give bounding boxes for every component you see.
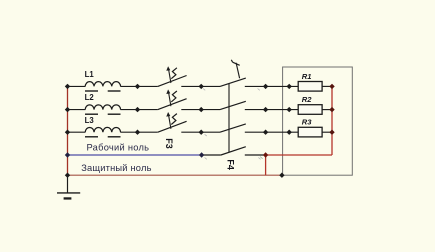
svg-text:F4: F4 [226, 159, 236, 170]
svg-text:R2: R2 [302, 95, 312, 104]
svg-text:R1: R1 [302, 72, 312, 81]
svg-text:L1: L1 [85, 70, 95, 79]
wire: left red vertical bus [67, 86, 69, 175]
wire: protective-neutral brick-red line [68, 174, 283, 176]
breaker F3 pole 1 [158, 66, 187, 86]
node R3 out [329, 130, 334, 135]
faint pin marks [203, 89, 263, 160]
wire: blue working-neutral line [68, 154, 202, 156]
wire: switch F4 to resistor (L2) [245, 109, 298, 111]
switch F4 linkage bar [228, 83, 230, 152]
wire: L2 bus to coil [68, 109, 86, 111]
node coil L1 out [135, 84, 140, 89]
node R1 in [287, 84, 292, 89]
wire: switch F4 neutral out [245, 154, 266, 156]
node R1 out [329, 84, 334, 89]
wire: switch F4 to resistor (L1) [245, 85, 298, 87]
svg-text:R3: R3 [302, 118, 312, 127]
node switch out row3 [263, 130, 268, 135]
node neutral red junction [263, 152, 268, 157]
switch F4 pole 2 [220, 101, 246, 109]
resistor R1 [298, 82, 322, 92]
phase row L2 wires [68, 109, 333, 111]
wire: resistor right lead (L3) [322, 131, 332, 133]
breaker F3 pole 3 [158, 112, 187, 132]
switch F4 actuator [231, 60, 239, 79]
wire: neutral node to switch F4 [202, 154, 221, 156]
node coil L2 out [135, 107, 140, 112]
inductor L1 [85, 82, 121, 91]
node neutral switch in [199, 152, 204, 157]
resistor R2 [298, 105, 322, 115]
svg-text:L2: L2 [85, 93, 95, 102]
neutral row wires (black parts) [202, 154, 266, 156]
node dots [65, 84, 335, 178]
svg-text:L3: L3 [85, 116, 95, 125]
switch F4 pole 1 [220, 78, 246, 86]
phase row L3 wires [68, 131, 333, 133]
wire: coil L3 to breaker F3 [120, 131, 157, 133]
wire: breaker F3 to switch F4 (L1) [181, 85, 220, 87]
wire: resistor right lead (L1) [322, 85, 332, 87]
svg-text:Рабочий ноль: Рабочий ноль [87, 143, 150, 153]
wire: red drop from neutral node to protective line [265, 155, 267, 175]
switch F4 neutral pole [221, 147, 246, 155]
enclosure box (grounded casing outline) [283, 67, 353, 175]
resistor R3 [298, 127, 322, 137]
node switch out row1 [263, 84, 268, 89]
wire: coil L2 to breaker F3 [120, 109, 157, 111]
wire: coil L1 to breaker F3 [120, 85, 157, 87]
phase row L1 wires [68, 85, 333, 87]
node L3-left [65, 130, 70, 135]
node L1-left [65, 84, 70, 89]
node switch out row2 [263, 107, 268, 112]
wire: red link right vertical (resistor common) [331, 86, 333, 155]
node R3 in [287, 130, 292, 135]
inductor L3 [85, 127, 121, 136]
node R2 in [287, 107, 292, 112]
inductor L2 [85, 105, 121, 114]
ground [57, 175, 80, 199]
wire: L1 bus to coil [68, 85, 86, 87]
node R2 out [329, 107, 334, 112]
node breaker1 out row2 [199, 107, 204, 112]
breaker F3 pole 2 [158, 89, 187, 109]
node coil L3 out [135, 130, 140, 135]
wire: resistor right lead (L2) [322, 109, 332, 111]
wire: earth stem [67, 175, 69, 193]
svg-text:Защитный ноль: Защитный ноль [81, 163, 151, 173]
node protective-left [65, 173, 70, 178]
switch F4 pole 3 [220, 124, 246, 132]
svg-text:F3: F3 [164, 138, 174, 149]
node L2-left [65, 107, 70, 112]
wire: L3 bus to coil [68, 131, 86, 133]
wire: red link horizontal [266, 154, 332, 156]
wire: switch F4 to resistor (L3) [245, 131, 298, 133]
wire: breaker F3 to switch F4 (L2) [181, 109, 220, 111]
wire: breaker F3 to switch F4 (L3) [181, 131, 220, 133]
node enclosure-to-protective [279, 173, 284, 178]
node breaker1 out row1 [199, 84, 204, 89]
node breaker1 out row3 [199, 130, 204, 135]
node neutral-left [65, 152, 70, 157]
